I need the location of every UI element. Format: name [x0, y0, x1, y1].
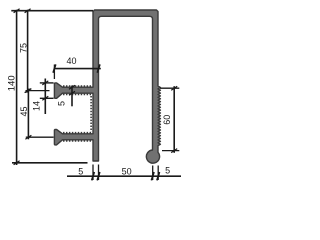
bottom dimension line (5 / 50 / 5) [67, 175, 181, 177]
extension lines below left leg [92, 165, 94, 181]
svg-text:50: 50 [122, 166, 132, 176]
dimension 40 line [54, 68, 100, 70]
profile body: aluminium extrusion cross-section [54, 10, 160, 163]
dimension 75 line [27, 10, 29, 93]
serration dots above top flange neck [63, 85, 93, 87]
serration dots below top flange neck [63, 93, 93, 95]
serration dots below bottom flange neck [63, 140, 93, 142]
serration dots on leg face between flanges [90, 96, 92, 132]
svg-text:140: 140 [6, 75, 17, 91]
serration dots above bottom flange neck [63, 132, 93, 134]
svg-text:14: 14 [32, 101, 42, 111]
svg-text:5: 5 [78, 166, 83, 176]
extension line bottom-left (140) [12, 162, 88, 164]
svg-text:40: 40 [66, 56, 76, 66]
extension lines cap height (14) [40, 82, 54, 84]
svg-text:5: 5 [165, 165, 170, 175]
dimension 14 line [44, 79, 46, 115]
dimension 60 line [173, 86, 175, 153]
dimension 45 line [27, 89, 29, 140]
dimension 5 (neck thickness) line [71, 86, 73, 107]
extension line (60 top) [160, 87, 179, 89]
svg-text:5: 5 [57, 101, 67, 106]
extension line at first flange centre [26, 90, 50, 92]
svg-text:75: 75 [18, 43, 28, 53]
extension line (40 left end) [53, 65, 55, 80]
extension line at second flange centre [26, 136, 54, 138]
svg-text:60: 60 [162, 115, 172, 125]
extension lines below right leg [152, 166, 154, 181]
svg-text:45: 45 [19, 106, 29, 116]
dimension 140 line [16, 10, 18, 165]
extension line (60 bottom) [162, 150, 179, 152]
extension line top [11, 10, 93, 12]
